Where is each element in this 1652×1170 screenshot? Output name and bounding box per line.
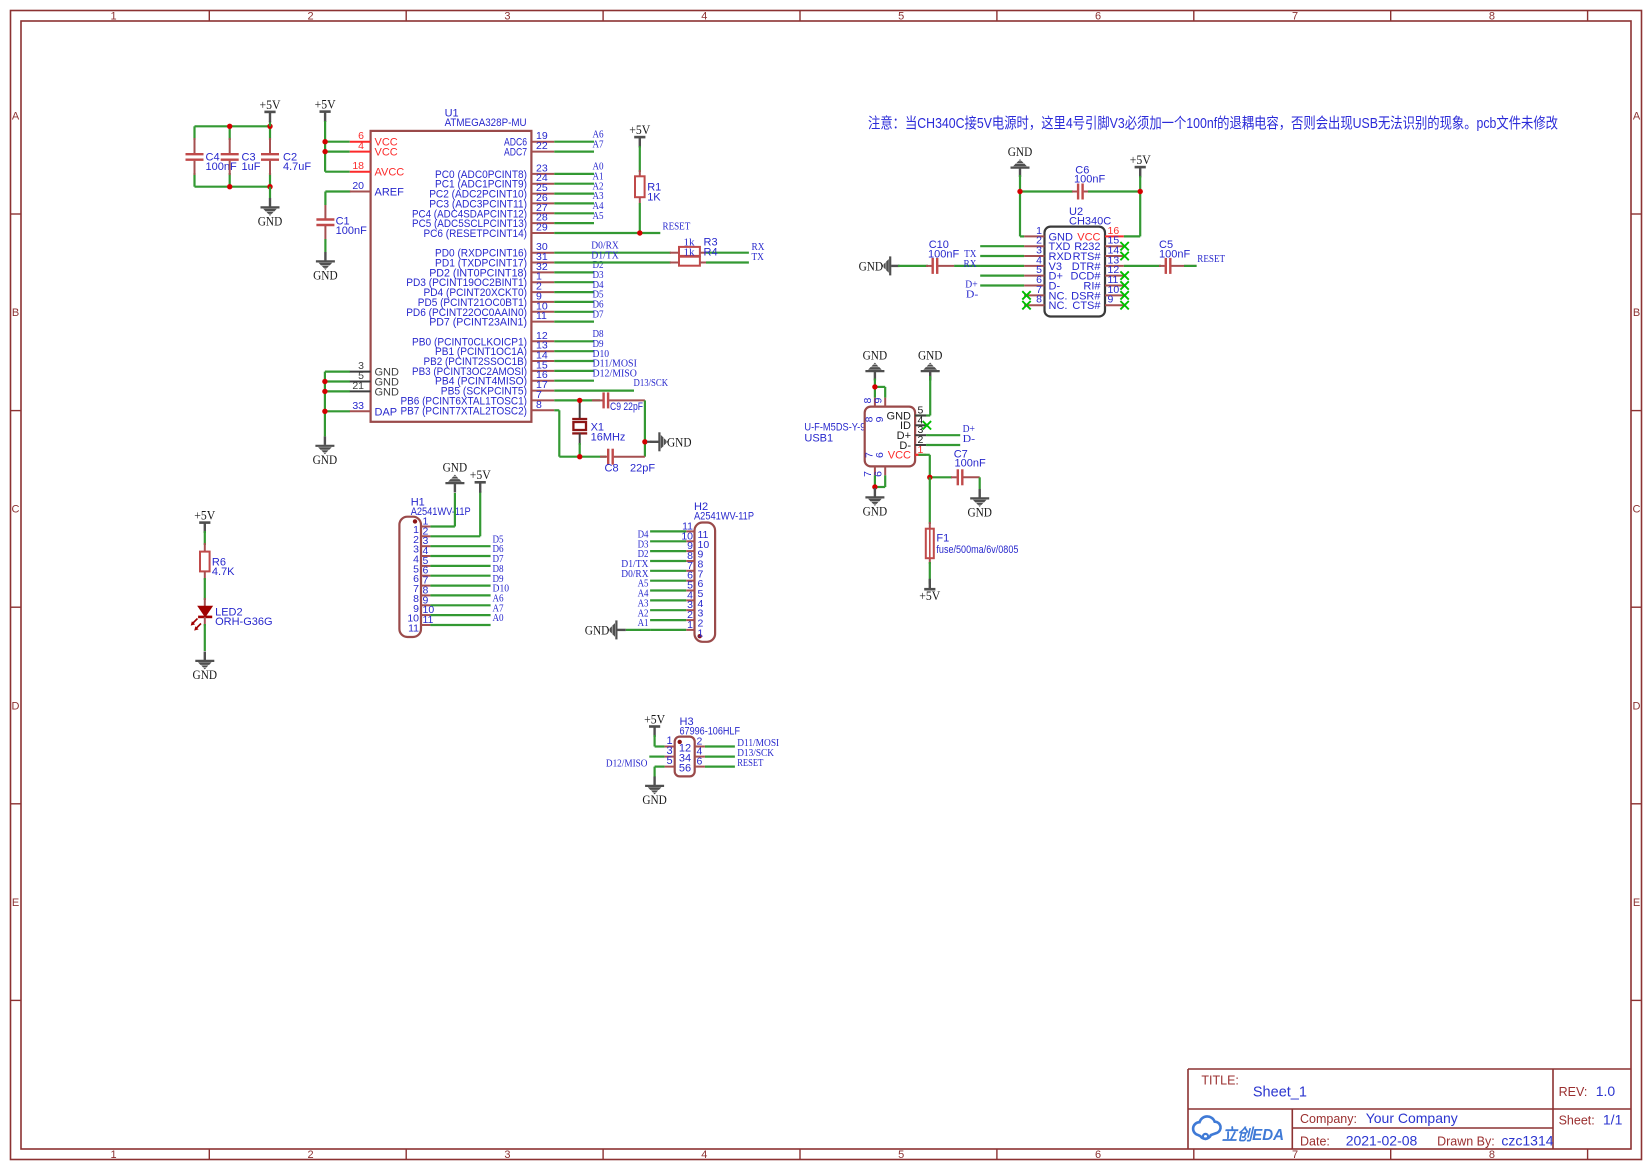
svg-text:100nF: 100nF — [1074, 174, 1105, 186]
svg-text:RESET: RESET — [737, 758, 764, 769]
H2 A2541WV-11P body — [695, 523, 716, 642]
svg-text:5: 5 — [898, 1149, 904, 1161]
U1 pin 3 GND — [350, 371, 371, 373]
svg-text:56: 56 — [679, 763, 691, 775]
wire net A6 — [430, 604, 490, 606]
svg-text:1K: 1K — [647, 192, 661, 204]
H2 pin 11 — [686, 530, 694, 532]
junction dots XTAL — [577, 398, 582, 403]
wire H2 pin 6 — [650, 580, 686, 582]
U1 pin 20 AREF — [350, 191, 371, 193]
wire H2 pin 10 — [650, 540, 686, 542]
svg-text:D-: D- — [966, 289, 979, 300]
svg-text:8: 8 — [1489, 11, 1495, 23]
svg-text:D13/SCK: D13/SCK — [634, 378, 669, 389]
power flag +5V above H1 — [479, 483, 481, 493]
wire bottom XTAL — [559, 456, 606, 458]
svg-text:GND: GND — [313, 268, 338, 283]
svg-text:+5V: +5V — [315, 97, 337, 112]
wire +5V to H3 pin1 — [653, 735, 655, 747]
svg-text:czc1314: czc1314 — [1501, 1133, 1553, 1149]
svg-text:GND: GND — [375, 386, 400, 398]
U2 pin 14 RTS# — [1105, 255, 1124, 257]
capacitor C7 — [930, 476, 952, 478]
U1 pin 7 PB6 (PCINT6XTAL1TOSC1) — [531, 399, 554, 401]
svg-text:GND: GND — [863, 348, 888, 363]
ground GND above USB1 pin5 — [921, 363, 940, 381]
svg-text:D: D — [12, 700, 20, 712]
ground GND above H1 — [445, 475, 464, 493]
svg-text:9: 9 — [1108, 294, 1114, 306]
svg-text:C: C — [1633, 504, 1641, 516]
svg-text:4: 4 — [701, 1149, 707, 1161]
svg-text:22: 22 — [536, 140, 548, 152]
power flag +5V above R1 — [639, 138, 641, 148]
svg-text:ORH-G36G: ORH-G36G — [215, 616, 272, 628]
wire jog pins 8 9 top — [875, 386, 885, 388]
wire AVCC pin18 — [325, 171, 350, 173]
U1 pin 21 GND — [350, 390, 371, 392]
svg-text:fuse/500ma/6v/0805: fuse/500ma/6v/0805 — [936, 544, 1018, 556]
U1 pin 15 PB3 (PCINT3OC2AMOSI) — [531, 370, 554, 372]
svg-text:21: 21 — [352, 380, 364, 392]
wire H2 pin 11 — [650, 530, 686, 532]
H2 pin 1 — [686, 629, 694, 631]
svg-text:立创EDA: 立创EDA — [1222, 1126, 1284, 1144]
H1 pin 7 — [421, 585, 430, 587]
svg-text:1: 1 — [698, 627, 704, 639]
svg-text:D7: D7 — [593, 309, 604, 320]
capacitor C10 — [926, 265, 932, 267]
capacitor C3 — [229, 126, 231, 140]
svg-text:4: 4 — [358, 140, 364, 152]
svg-text:A5: A5 — [593, 211, 604, 222]
wire net A0 — [430, 624, 490, 626]
wire F1 to +5V — [929, 562, 931, 584]
U1 pin 30 PD0 (RXDPCINT16) — [531, 252, 554, 254]
wire D0/RX to R3 — [554, 252, 671, 254]
logo LCEDA — [1193, 1116, 1284, 1144]
U1 pin 8 PB7 (PCINT7XTAL2TOSC2) — [531, 409, 554, 411]
svg-text:1uF: 1uF — [242, 161, 261, 173]
wire GND to pin5 — [929, 376, 931, 416]
U1 pin 25 PC2 (ADC2PCINT10) — [531, 193, 554, 195]
svg-text:R4: R4 — [704, 246, 718, 258]
svg-text:GND: GND — [859, 258, 884, 273]
svg-text:5: 5 — [667, 755, 673, 767]
H2 pin 5 — [686, 590, 694, 592]
wire D1/TX to R4 — [554, 261, 671, 263]
U1 pin 18 AVCC — [350, 171, 371, 173]
svg-text:REV:: REV: — [1559, 1085, 1588, 1099]
wire net D11/MOSI — [554, 370, 594, 372]
svg-text:+5V: +5V — [644, 711, 666, 726]
wire H1 pin2 to +5V — [430, 535, 480, 537]
power flag +5V above U1 VCC — [324, 112, 326, 122]
capacitor C2 — [269, 126, 271, 140]
U2 pin 16 VCC — [1105, 235, 1124, 237]
ground GND below H3 — [645, 777, 664, 795]
wire H2 pin 3 — [650, 609, 686, 611]
wire net D6 — [430, 555, 490, 557]
svg-text:VCC: VCC — [375, 147, 398, 159]
wire net D6 — [554, 311, 594, 313]
wire USB VCC pin1 — [915, 454, 920, 456]
ground GND left of C10 — [882, 256, 900, 275]
wire RXD pin3 — [980, 255, 1024, 257]
svg-text:3: 3 — [504, 11, 510, 23]
svg-text:D1/TX: D1/TX — [591, 250, 619, 261]
wire GND to C6 rail — [1019, 175, 1021, 192]
svg-text:ATMEGA328P-MU: ATMEGA328P-MU — [445, 117, 527, 129]
ground GND right of XTAL — [647, 441, 652, 443]
U2 pin 1 GND — [1024, 235, 1044, 237]
svg-text:AREF: AREF — [375, 187, 405, 199]
svg-text:9: 9 — [874, 416, 886, 422]
svg-text:6: 6 — [697, 756, 703, 768]
wire XTAL stem bottom — [579, 433, 581, 445]
wire R4 to TX — [706, 261, 749, 263]
svg-text:1k: 1k — [684, 247, 696, 258]
svg-text:6: 6 — [1095, 11, 1101, 23]
svg-text:+5V: +5V — [470, 467, 492, 482]
ground GND below C7 — [979, 477, 981, 489]
svg-text:C9 22pF: C9 22pF — [610, 401, 643, 413]
ground GND below U1 bus — [315, 436, 334, 454]
H1 first pin dot — [413, 519, 417, 523]
U1 pin 23 PC0 (ADC0PCINT8) — [531, 173, 554, 175]
wire net D11/MOSI — [705, 745, 735, 747]
U2 pin 15 R232 — [1105, 245, 1124, 247]
wire net D10 — [554, 360, 594, 362]
title block — [1188, 1069, 1631, 1149]
svg-text:B: B — [1633, 307, 1640, 319]
svg-text:GND: GND — [863, 504, 888, 519]
svg-text:100nF: 100nF — [955, 458, 986, 470]
wire D- pin2 — [926, 444, 960, 446]
svg-text:1: 1 — [111, 11, 117, 23]
H3 67996-106HLF body — [675, 737, 695, 777]
USB1 pin 2 D- — [915, 444, 926, 446]
U1 pin 16 PB4 (PCINT4MISO) — [531, 380, 554, 382]
power flag +5V above R6 — [204, 523, 206, 533]
junction dots GND bus — [322, 379, 327, 384]
svg-text:ADC7: ADC7 — [504, 147, 527, 159]
svg-text:GND: GND — [1008, 144, 1033, 159]
U2 CH340C body — [1045, 227, 1106, 317]
wire H2 pin 2 — [650, 619, 686, 621]
svg-text:A7: A7 — [593, 139, 604, 150]
svg-text:USB1: USB1 — [804, 432, 833, 444]
svg-text:2: 2 — [307, 1149, 313, 1161]
svg-text:Date:: Date: — [1300, 1135, 1330, 1149]
LED LED2 — [204, 598, 206, 606]
svg-text:100nF: 100nF — [206, 161, 237, 173]
svg-text:8: 8 — [1489, 1149, 1495, 1161]
U1 pin 5 GND — [350, 381, 371, 383]
svg-text:33: 33 — [352, 400, 364, 412]
junction dot bottom — [872, 484, 877, 489]
svg-text:11: 11 — [536, 310, 547, 322]
ground GND above USB1 pin 8 9 — [865, 363, 884, 381]
U1 pin 1 PD3 (PCINT19OC2BINT1) — [531, 281, 554, 283]
wire net D7 — [430, 565, 490, 567]
wire net A0 — [554, 173, 594, 175]
svg-text:100nF: 100nF — [928, 248, 959, 260]
USB1 pin 7 — [874, 466, 876, 475]
wire H2 pin 8 — [650, 560, 686, 562]
wire net D4 — [554, 291, 594, 293]
svg-text:5: 5 — [898, 11, 904, 23]
svg-text:+5V: +5V — [1130, 152, 1152, 167]
H1 pin 10 — [421, 614, 430, 616]
U1 pin 13 PB1 (PCINT1OC1A) — [531, 350, 554, 352]
U2 pin 10 DSR# — [1105, 294, 1124, 296]
wire +5V rail top of C4/C3/C2 — [195, 125, 271, 127]
U1 pin 11 PD7 (PCINT23AIN1) — [531, 321, 554, 323]
power flag +5V below F1 — [929, 579, 931, 589]
U1 pin 32 PD2 (INT0PCINT18) — [531, 271, 554, 273]
svg-text:Your Company: Your Company — [1366, 1110, 1458, 1126]
svg-text:+5V: +5V — [260, 97, 282, 112]
svg-text:GND: GND — [585, 622, 610, 637]
wire LED2 to GND — [204, 617, 206, 626]
ground GND below LED2 — [195, 652, 214, 670]
svg-text:注意：当CH340C接5V电源时，这里4号引脚V3必须加一个: 注意：当CH340C接5V电源时，这里4号引脚V3必须加一个100nf的退耦电容… — [868, 114, 1558, 132]
wire XTAL stem top — [579, 400, 581, 418]
svg-text:+5V: +5V — [919, 588, 941, 603]
U2 pin 4 V3 — [1024, 265, 1044, 267]
U1 ATMEGA328P-MU body — [371, 131, 532, 422]
H3 pin 5 — [665, 766, 675, 768]
wire DAP pin33 — [325, 410, 350, 412]
ground GND above U2 — [1011, 159, 1030, 177]
wire TXD pin2 — [980, 245, 1024, 247]
wire +5V down to VCC pin16 — [1139, 176, 1141, 236]
wire bottom rail of C4/C3/C2 — [195, 186, 271, 188]
wire +5V to R6 — [204, 531, 206, 545]
wire pin8 down — [554, 409, 559, 411]
wire R6 to LED2 — [204, 578, 206, 600]
wire net A3 — [554, 202, 594, 204]
U2 pin 6 D- — [1024, 285, 1044, 287]
svg-text:GND: GND — [642, 792, 667, 807]
H1 pin 2 — [421, 535, 430, 537]
H3 first pin dot — [678, 740, 682, 744]
no-connect X mark USB1 pin4 ID — [923, 421, 931, 429]
svg-text:C: C — [12, 504, 20, 516]
U2 pin 12 DCD# — [1105, 275, 1124, 277]
svg-text:A: A — [12, 111, 20, 123]
svg-text:C8: C8 — [605, 463, 619, 475]
USB1 pin 4 ID — [915, 424, 926, 426]
svg-text:8: 8 — [536, 399, 542, 411]
fuse F1 — [929, 522, 931, 564]
USB1 U-F-M5DS-Y-9 body — [865, 407, 915, 467]
svg-text:GND: GND — [193, 667, 218, 682]
svg-text:PD7 (PCINT23AIN1): PD7 (PCINT23AIN1) — [429, 317, 527, 329]
wire AREF pin20 to C1 — [325, 190, 350, 192]
USB1 pin 1 VCC — [915, 454, 926, 456]
svg-text:GND: GND — [667, 434, 692, 449]
svg-text:20: 20 — [352, 180, 364, 192]
wire R1 to RESET net — [639, 203, 641, 233]
wire D+ pin5 — [980, 275, 1024, 277]
H2 pin 10 — [686, 540, 694, 542]
junction dots VCC rail — [322, 139, 327, 144]
svg-text:100nF: 100nF — [336, 225, 367, 237]
resistor R4 — [670, 262, 679, 264]
H2 pin 2 — [686, 619, 694, 621]
wire H2 pin 9 — [650, 550, 686, 552]
svg-text:PC6 (RESETPCINT14): PC6 (RESETPCINT14) — [424, 228, 528, 240]
H2 pin 9 — [686, 550, 694, 552]
H1 pin 1 — [421, 526, 430, 528]
U1 pin 26 PC3 (ADC3PCINT11) — [531, 202, 554, 204]
wire H3 pin3 stub — [649, 755, 664, 757]
wire C5 to RESET — [1184, 265, 1197, 267]
wire GND pin21 — [325, 390, 350, 392]
svg-text:AVCC: AVCC — [375, 167, 405, 179]
wire right vertical XTAL — [644, 400, 646, 456]
wire H2 pin 7 — [650, 570, 686, 572]
junction dot RESET — [637, 230, 642, 235]
U1 pin 22 ADC7 — [531, 151, 554, 153]
svg-text:NC.: NC. — [1049, 300, 1068, 312]
U1 pin 2 PD4 (PCINT20XCKT0) — [531, 291, 554, 293]
H3 pin 4 — [695, 756, 705, 758]
wire net D12/MISO — [554, 380, 594, 382]
wire net A7 — [554, 151, 594, 153]
USB1 pin 6 — [884, 466, 886, 475]
svg-text:Sheet:: Sheet: — [1559, 1114, 1595, 1128]
wire +5V vertical to VCC pins — [324, 121, 326, 172]
wire net D9 — [554, 350, 594, 352]
svg-text:D: D — [1633, 700, 1641, 712]
wire VCC pin6 — [325, 141, 350, 143]
svg-text:4.7uF: 4.7uF — [283, 161, 311, 173]
capacitor C4 — [194, 138, 196, 153]
svg-text:GND: GND — [258, 214, 283, 229]
wire net A2 — [554, 193, 594, 195]
svg-text:11: 11 — [408, 623, 419, 635]
wire net D10 — [430, 594, 490, 596]
H2 pin 6 — [686, 580, 694, 582]
junction dot C7 — [927, 475, 932, 480]
capacitor C1 — [324, 205, 326, 219]
wire net A5 — [554, 222, 594, 224]
resistor R3 — [670, 252, 679, 254]
svg-text:1: 1 — [687, 619, 693, 631]
svg-text:VCC: VCC — [888, 450, 911, 462]
svg-text:22pF: 22pF — [630, 463, 655, 475]
capacitor C8 — [600, 456, 607, 458]
svg-text:E: E — [12, 897, 19, 909]
wire H2 pin 4 — [650, 599, 686, 601]
svg-text:7: 7 — [1292, 11, 1298, 23]
svg-text:RX: RX — [964, 259, 977, 270]
ground GND below C2 — [269, 187, 271, 198]
svg-text:A0: A0 — [493, 613, 504, 624]
wire VCC pin4 — [325, 151, 350, 153]
H1 pin 9 — [421, 604, 430, 606]
U1 pin 27 PC4 (ADC4SDAPCINT12) — [531, 212, 554, 214]
U1 pin 12 PB0 (PCINT0CLKOICP1) — [531, 340, 554, 342]
svg-text:+5V: +5V — [194, 508, 216, 523]
svg-text:TX: TX — [752, 252, 765, 263]
power flag +5V above H3 — [653, 727, 655, 737]
H3 pin 1 — [665, 746, 675, 748]
capacitor C6 — [1020, 190, 1073, 192]
svg-text:A2541WV-11P: A2541WV-11P — [694, 511, 754, 523]
svg-text:9: 9 — [872, 398, 884, 404]
U1 pin 29 PC6 (RESETPCINT14) — [531, 232, 554, 234]
U2 pin 5 D+ — [1024, 275, 1044, 277]
wire net D5 — [430, 545, 490, 547]
svg-text:PB7 (PCINT7XTAL2TOSC2): PB7 (PCINT7XTAL2TOSC2) — [401, 405, 528, 417]
power flag +5V right of C6 — [1139, 168, 1141, 178]
H2 pin 7 — [686, 570, 694, 572]
svg-text:GND: GND — [918, 348, 943, 363]
wire +5V to R1 — [639, 146, 641, 172]
wire net RESET — [705, 765, 735, 767]
wire H2 pin 5 — [650, 589, 686, 591]
svg-text:GND: GND — [313, 452, 338, 467]
U1 pin 33 DAP — [350, 410, 371, 412]
wire net A1 — [554, 183, 594, 185]
U1 pin 17 PB5 (SCKPCINT5) — [531, 390, 554, 392]
U1 pin 6 VCC — [350, 141, 371, 143]
svg-text:RESET: RESET — [1197, 254, 1225, 265]
USB1 pin 9 — [884, 398, 886, 407]
wire C10 to V3 pin4 — [954, 265, 1024, 267]
svg-text:6: 6 — [1095, 1149, 1101, 1161]
U2 pin 9 CTS# — [1105, 304, 1124, 306]
ground GND below C1 — [324, 239, 326, 252]
H1 A2541WV-11P body — [399, 517, 421, 637]
svg-text:6: 6 — [874, 452, 886, 458]
wire D+ pin3 — [926, 434, 960, 436]
H3 pin 2 — [695, 746, 705, 748]
junction dots on cap rails — [227, 124, 232, 129]
wire RESET pin29 — [554, 232, 660, 234]
H2 first pin dot — [698, 634, 702, 638]
USB1 pin 8 — [874, 398, 876, 407]
svg-text:8: 8 — [1036, 294, 1042, 306]
svg-text:F1: F1 — [936, 533, 949, 545]
H1 pin 6 — [421, 575, 430, 577]
U1 pin 9 PD5 (PCINT21OC0BT1) — [531, 301, 554, 303]
wire net D13/SCK — [554, 390, 634, 392]
wire H1 pin1 to GND — [430, 525, 455, 527]
wire GND pin5 — [325, 380, 350, 382]
wire DTR# pin13 to C5 — [1124, 265, 1161, 267]
H1 pin 4 — [421, 555, 430, 557]
ground GND below USB1 — [865, 488, 884, 506]
crystal X1 — [572, 418, 587, 420]
wire H3 pin5 to GND — [655, 765, 665, 767]
no-connect X marks U2 left pins 7 8 — [1022, 291, 1030, 299]
svg-text:Drawn By:: Drawn By: — [1437, 1135, 1495, 1149]
capacitor C9 — [592, 399, 603, 401]
svg-text:2021-02-08: 2021-02-08 — [1346, 1133, 1418, 1149]
wire pin7 to C9 — [554, 399, 600, 401]
svg-text:TITLE:: TITLE: — [1201, 1074, 1239, 1088]
svg-text:100nF: 100nF — [1159, 248, 1190, 260]
svg-text:RESET: RESET — [663, 221, 691, 232]
svg-text:D12/MISO: D12/MISO — [606, 758, 648, 769]
svg-text:16MHz: 16MHz — [591, 432, 626, 444]
